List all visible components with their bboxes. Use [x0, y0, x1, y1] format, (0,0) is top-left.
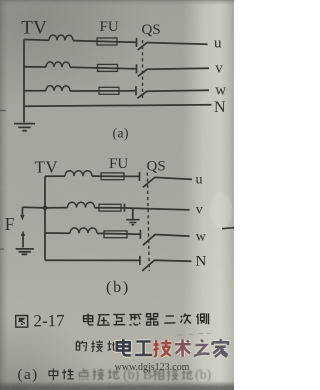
switch contact tick u (b) — [139, 172, 141, 181]
svg-text:TV: TV — [21, 18, 47, 39]
label F (b) — [5, 214, 15, 234]
winding TV phase w (b) — [70, 228, 97, 233]
svg-text:(b): (b) — [106, 279, 130, 296]
ground (a) — [14, 124, 35, 131]
svg-text:QS: QS — [147, 159, 166, 175]
wire L1 to switch (b) — [92, 175, 140, 177]
left bus (b) — [44, 176, 46, 260]
terminal label u (b) — [196, 172, 203, 187]
switch blade w (b) — [143, 234, 155, 245]
svg-text:(b): (b) — [195, 368, 212, 383]
wire N left (b) — [45, 259, 140, 261]
watermark text 电工技术之家 — [117, 339, 228, 357]
label TV (b) — [35, 158, 59, 177]
winding TV phase v (a) — [46, 62, 70, 67]
svg-text:QS: QS — [142, 22, 161, 38]
terminal label v (a) — [215, 61, 223, 77]
label FU (a) — [100, 19, 119, 35]
wire N right (b) — [154, 260, 191, 261]
winding TV phase v (b) — [68, 202, 95, 207]
svg-text:2-17: 2-17 — [33, 311, 65, 330]
fault arrow up shaft (b) — [22, 235, 24, 247]
junction node dot (b) — [43, 206, 48, 211]
switch contact tick v (a) — [136, 64, 138, 73]
switch QS linkage dashed (a) — [142, 40, 144, 98]
svg-text:(a): (a) — [113, 125, 129, 140]
wire L1 left (a) — [24, 39, 49, 42]
fuse FU phase w (a) — [99, 87, 119, 94]
wire L3 right (b) — [155, 235, 190, 237]
ground fault F (b) — [16, 249, 34, 254]
fuse FU phase w (b) — [104, 231, 127, 238]
wire L3 to switch (b) — [97, 232, 140, 235]
winding TV phase u (b) — [65, 171, 92, 176]
caption (a) — [113, 125, 129, 140]
wire L2 left (b) — [45, 207, 68, 209]
watermark url — [115, 362, 190, 373]
light sheen blob right margin — [210, 192, 232, 228]
caption row1: 图 2-17 电压互感器二次侧 — [16, 310, 209, 331]
wire L2 right (a) — [147, 68, 209, 69]
ground v-phase (b) — [126, 220, 139, 225]
fault branch wire F (b) — [22, 206, 45, 209]
terminal label v (b) — [196, 203, 203, 218]
page-edge tick left (a) — [0, 110, 6, 112]
fuse contact tick v (b) — [124, 204, 126, 212]
fuse FU phase u (b) — [101, 173, 124, 180]
switch contact tick N (b) — [139, 256, 141, 265]
wire L3 left (b) — [45, 232, 70, 234]
switch QS linkage dashed (b) — [147, 173, 149, 272]
svg-text:TV: TV — [35, 158, 59, 177]
svg-text:u: u — [196, 172, 203, 187]
switch blade N (b) — [142, 260, 154, 271]
wire L2 through to right (b) — [95, 208, 190, 210]
wire N line (a) — [24, 105, 212, 106]
wire L2 to switch (a) — [70, 67, 137, 69]
terminal label w (a) — [215, 83, 226, 99]
ground stub v (b) — [132, 208, 134, 219]
fault arrow up head (b) — [21, 231, 25, 236]
wire L2 left (a) — [24, 66, 46, 68]
fuse FU phase v (a) — [98, 64, 118, 71]
svg-text:v: v — [215, 61, 223, 77]
wire L1 right (a) — [147, 43, 207, 45]
switch contact tick u (a) — [136, 38, 138, 47]
caption row3: (a) 中性点接地; (b) B相接地 — [18, 367, 212, 383]
switch contact tick w (b) — [139, 230, 141, 239]
switch contact tick w (a) — [135, 86, 137, 95]
switch blade u (a) — [138, 42, 148, 50]
winding TV phase u (a) — [49, 35, 73, 40]
fault arrow down shaft (b) — [21, 207, 23, 216]
svg-text:u: u — [214, 35, 222, 51]
fault arrow down head (b) — [21, 215, 25, 220]
svg-text:FU: FU — [109, 156, 128, 172]
svg-text:(b) B: (b) B — [123, 368, 152, 383]
label FU (b) — [109, 156, 128, 172]
wire L1 left (b) — [45, 175, 65, 177]
svg-text:N: N — [214, 99, 226, 116]
wire L1 to switch (a) — [73, 41, 137, 43]
label TV (a) — [21, 18, 47, 39]
stray dash right margin — [222, 228, 234, 229]
faint smudge marks above watermark right — [177, 333, 211, 336]
terminal label N (a) — [214, 99, 226, 116]
fuse FU phase u (a) — [97, 38, 117, 45]
terminal label w (b) — [196, 230, 207, 245]
left bus (a) — [23, 40, 25, 123]
switch blade w (a) — [137, 91, 147, 98]
page-edge tick left (b) — [0, 248, 4, 250]
svg-text:w: w — [196, 230, 207, 245]
label QS (a) — [142, 22, 161, 38]
terminal label u (a) — [214, 35, 222, 51]
caption row2: 的接地(方式) — [76, 340, 118, 351]
wire L3 right (a) — [147, 89, 209, 92]
svg-text:w: w — [215, 83, 226, 99]
wire L3 left (a) — [24, 90, 46, 92]
svg-text:F: F — [5, 214, 15, 234]
label QS (b) — [147, 159, 166, 175]
svg-text:N: N — [196, 254, 207, 270]
svg-text:v: v — [196, 203, 203, 218]
watermark halo — [117, 339, 228, 357]
terminal label N (b) — [196, 254, 207, 270]
svg-text:FU: FU — [100, 19, 119, 35]
wire L3 to switch (a) — [70, 90, 136, 92]
winding TV phase w (a) — [46, 86, 70, 91]
wire L1 right (b) — [155, 177, 192, 179]
switch blade u (b) — [143, 177, 155, 187]
svg-text:(a): (a) — [18, 367, 39, 383]
switch blade v (a) — [138, 69, 148, 76]
fuse FU phase v (b) — [99, 204, 121, 211]
caption (b) — [106, 279, 130, 296]
